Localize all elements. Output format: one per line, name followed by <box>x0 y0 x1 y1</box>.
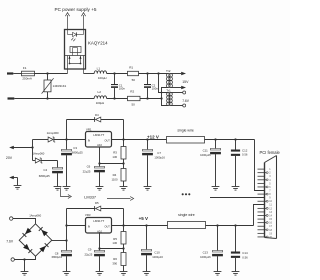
ferrite single wire bottom box <box>168 222 206 229</box>
text: R2 value 50 <box>132 103 136 107</box>
connector pin 9 <box>258 197 265 199</box>
arrow: 20V return <box>9 176 17 186</box>
svg-text:+5 V: +5 V <box>139 216 148 221</box>
text: R3 value 130 <box>112 155 117 159</box>
arrow: LM337 repeat right <box>107 197 134 201</box>
svg-text:1000µ16: 1000µ16 <box>200 153 211 157</box>
resistor R2 <box>128 96 141 100</box>
text: C12 value 0.56 <box>242 153 248 157</box>
text: single wire top <box>177 128 194 132</box>
svg-text:6800µ25: 6800µ25 <box>72 151 83 155</box>
ground: C8 <box>63 272 71 276</box>
svg-text:5: 5 <box>269 182 271 185</box>
text: L2 <box>98 90 102 94</box>
wire: bridge diamond edges <box>19 224 52 256</box>
text: C6 value 22u25 <box>83 169 91 173</box>
wire: Tr2 secondary bottom output <box>170 86 186 89</box>
node: C2 top junction <box>146 72 148 74</box>
text: +12 V rail label <box>147 135 159 140</box>
fuse F1 <box>22 71 35 76</box>
connector pin 15 <box>258 218 265 220</box>
svg-text:22µ25: 22µ25 <box>83 169 91 173</box>
wire: input ground stub <box>24 260 26 272</box>
capacitor C8 <box>61 251 72 272</box>
svg-text:PCI female: PCI female <box>260 150 281 155</box>
text: F1 <box>23 66 27 70</box>
svg-text:C8: C8 <box>55 252 59 256</box>
terminal: 7.6V input bottom circle <box>11 258 14 261</box>
terminal: line input top <box>7 72 13 74</box>
relay internal MOSFET switches <box>68 56 81 65</box>
ground: C13 <box>214 272 222 276</box>
relay output pin right <box>83 56 85 74</box>
text: VR3 ADJ pin <box>97 230 102 233</box>
ground: bridge input <box>21 272 29 276</box>
wire: top tap down to Tr1 primary <box>159 74 169 93</box>
wire: bottom rail L2 to R2 <box>107 98 128 100</box>
capacitor C12 <box>231 140 240 187</box>
diode D5 <box>95 206 101 211</box>
svg-text:19: 19 <box>269 232 272 235</box>
connector pin 10 <box>258 200 267 202</box>
wire: rail after bottom single wire box <box>206 225 254 227</box>
text: R1 <box>129 66 133 70</box>
capacitor C1 <box>111 74 118 99</box>
wire: +5V feed to connector <box>254 205 265 226</box>
node: R5-R6 junction <box>122 247 124 249</box>
text: C10 <box>154 251 160 255</box>
svg-text:+12 V: +12 V <box>147 135 159 140</box>
svg-text:1000µ16: 1000µ16 <box>154 156 165 160</box>
wire: to diode D3 <box>33 160 36 162</box>
arrow: 20V input from transformer <box>9 146 32 149</box>
node: Tr1 primary top tap <box>161 92 163 94</box>
diode B3 (bottom-left) <box>23 244 32 253</box>
svg-text:LM317T: LM317T <box>93 219 104 223</box>
svg-text:C9: C9 <box>88 248 92 252</box>
text: bridge label 1Amp060 <box>29 213 41 217</box>
regulator VR1 LM317 box <box>86 132 112 148</box>
svg-text:OUT: OUT <box>105 139 111 142</box>
text: VR1 OUT pin <box>105 139 111 142</box>
text: VR3 LM317T <box>93 219 104 223</box>
wire: Tr2 secondary top output <box>170 72 186 75</box>
relay internal gate arch <box>73 48 78 56</box>
wire: bottom rail R2 to transformer <box>140 98 162 100</box>
wire: Tr1 secondary bottom output <box>170 104 185 107</box>
ground: R6 <box>120 272 128 276</box>
node: C10 junction <box>145 224 147 226</box>
node: bottom rail varistor junction <box>46 97 48 99</box>
text: R6 <box>113 257 117 261</box>
wire: top rail L1 to R1 <box>107 73 128 75</box>
node: C13 junction <box>216 224 218 226</box>
node: C1 top junction <box>113 72 115 74</box>
text: D2 label 1Amp060 <box>47 131 59 135</box>
svg-text:LM337: LM337 <box>84 195 96 200</box>
resistor R1 <box>128 71 139 75</box>
svg-text:16: 16 <box>269 222 272 225</box>
capacitor C3 <box>61 140 72 187</box>
svg-text:11: 11 <box>269 204 272 207</box>
text: KAQY214 label <box>88 41 108 46</box>
svg-text:VR1: VR1 <box>86 127 92 131</box>
text: C3 <box>73 146 77 150</box>
svg-text:1100: 1100 <box>112 177 118 181</box>
svg-text:PC power supply +5: PC power supply +5 <box>54 7 96 12</box>
node: VR1 input junction <box>65 138 67 140</box>
connector pin 17 <box>258 225 265 227</box>
text: VR3 <box>85 213 91 217</box>
svg-text:0.56: 0.56 <box>242 153 248 157</box>
svg-text:50: 50 <box>132 103 136 107</box>
svg-text:OUT: OUT <box>105 225 111 228</box>
resistor R5 <box>121 226 126 249</box>
ground: C4 <box>54 187 62 191</box>
svg-text:6800µ16: 6800µ16 <box>52 255 63 259</box>
svg-text:D5: D5 <box>95 201 99 205</box>
text: PCI female <box>260 150 281 155</box>
svg-text:KAQY214: KAQY214 <box>88 41 108 46</box>
diode D2 1Amp060 <box>48 137 55 142</box>
text: C9 <box>88 248 92 252</box>
svg-text:C14: C14 <box>242 251 248 255</box>
svg-text:14D331K1: 14D331K1 <box>53 84 67 88</box>
resistor R6 <box>121 249 126 272</box>
svg-text:17: 17 <box>269 225 272 228</box>
wire: D3 to C4 <box>41 160 57 162</box>
relay U1 KAQY214 outline <box>65 30 86 70</box>
svg-text:single wire: single wire <box>177 128 194 132</box>
resistor R4 <box>121 164 126 187</box>
node: ADJ junction VR3 <box>98 247 100 249</box>
svg-text:22µ25: 22µ25 <box>85 253 93 257</box>
svg-text:C11: C11 <box>203 148 208 152</box>
relay internal bus line <box>65 55 85 57</box>
svg-text:100µH: 100µH <box>98 76 107 80</box>
text: C7 <box>157 151 161 155</box>
svg-text:13: 13 <box>269 211 272 214</box>
text: 7.6V input label <box>6 239 14 243</box>
wire: VR1 output rail <box>112 139 167 141</box>
svg-text:1Amp060: 1Amp060 <box>47 131 59 135</box>
svg-text:C6: C6 <box>87 164 91 168</box>
connector pin numbers <box>269 168 272 239</box>
text: 250mA <box>22 77 32 81</box>
text: L2 value 100uH <box>96 101 105 105</box>
text: C13 value 1000u16 <box>200 255 211 259</box>
svg-text:Tr2: Tr2 <box>166 69 171 73</box>
text: Tr2 <box>166 69 171 73</box>
node: R5 top junction <box>122 224 124 226</box>
text: C3 value 6800u25 <box>72 151 83 155</box>
wire: VR1 ADJ <box>100 147 124 164</box>
transformer Tr1 primary winding <box>167 92 170 105</box>
text: C11 <box>203 148 208 152</box>
svg-text:12: 12 <box>269 207 272 210</box>
transformer Tr1 secondary winding <box>169 92 172 105</box>
connector pin 19 <box>258 232 265 234</box>
wire: D5 bypass right <box>123 209 125 226</box>
diode B4 (bottom-right) <box>39 243 48 252</box>
wire: bridge output to VR3 input node <box>52 209 67 251</box>
ground: C7 <box>144 187 152 191</box>
regulator VR3 LM317 box <box>86 218 112 234</box>
ground: R4 <box>120 187 128 191</box>
node: transformer primary tap top <box>157 72 159 74</box>
wire: 7.6V top input to bridge <box>13 219 36 224</box>
svg-text:VR3: VR3 <box>85 213 91 217</box>
capacitor C14 <box>231 226 240 272</box>
text: VR1 <box>86 127 92 131</box>
wire: D4 bypass right <box>123 120 125 140</box>
capacitor C2 <box>144 74 151 99</box>
svg-text:C7: C7 <box>157 151 161 155</box>
text: C8 value 6800u16 <box>52 255 63 259</box>
varistor RV1 <box>42 74 54 99</box>
connector pin socket circles <box>266 172 268 238</box>
svg-text:7: 7 <box>269 190 271 193</box>
svg-text:14: 14 <box>269 215 272 218</box>
node: C2 bottom junction <box>146 97 148 99</box>
transformer Tr2 secondary winding <box>169 73 173 87</box>
svg-text:L2: L2 <box>98 90 102 94</box>
wire: +12V feed to connector <box>255 140 265 191</box>
terminal: line input bottom <box>8 97 15 99</box>
resistor R3 <box>121 140 126 164</box>
text: C2 value 100n <box>152 87 159 91</box>
wire: rail after single wire box <box>205 139 255 141</box>
diode D4 <box>95 117 101 122</box>
connector pin 20 <box>258 236 267 238</box>
text: C2 <box>152 84 156 88</box>
svg-text:130: 130 <box>112 241 117 245</box>
wire: top rail terminal to fuse <box>13 73 21 75</box>
node: ellipsis dots <box>182 193 191 195</box>
svg-text:100µH: 100µH <box>96 101 105 105</box>
svg-text:7.6V: 7.6V <box>6 239 14 243</box>
text: VR1 ADJ pin <box>97 144 102 147</box>
svg-text:F1: F1 <box>23 66 27 70</box>
svg-text:C10: C10 <box>154 251 160 255</box>
wire: VR3 ADJ <box>100 233 124 249</box>
ground: C11 <box>212 187 220 191</box>
text: VR1 IN pin <box>88 139 91 142</box>
text: 20V <box>6 156 13 160</box>
node: C7 junction <box>146 138 148 140</box>
svg-text:R2: R2 <box>130 90 134 94</box>
connector pin 13 <box>258 211 265 213</box>
svg-text:ADJ: ADJ <box>97 230 102 233</box>
text: L1 value 100uH <box>98 76 107 80</box>
svg-text:C12: C12 <box>242 148 248 152</box>
wire: Tr1 secondary top output <box>170 91 185 94</box>
text: R3 <box>113 151 117 155</box>
text: L1 <box>97 67 101 71</box>
node: R3-R4 junction <box>122 162 124 164</box>
connector pin 16 <box>258 222 267 224</box>
ground: C10 <box>143 272 151 276</box>
text: C6 <box>87 164 91 168</box>
svg-text:390: 390 <box>112 261 117 265</box>
text: C9 value 22u25 <box>85 253 93 257</box>
svg-text:15V: 15V <box>182 80 189 84</box>
wire: D4 bypass top <box>67 119 124 121</box>
text: R2 <box>130 90 134 94</box>
svg-text:250mA: 250mA <box>22 77 32 81</box>
transformer Tr2 primary winding <box>166 73 170 87</box>
svg-text:C3: C3 <box>73 146 77 150</box>
svg-text:130: 130 <box>112 155 117 159</box>
text: C14 <box>242 251 248 255</box>
text: VR3 IN pin <box>88 225 91 228</box>
text: VR3 OUT pin <box>105 225 111 228</box>
text: C1 <box>119 84 123 88</box>
svg-text:9: 9 <box>269 197 271 200</box>
capacitor C11 <box>210 140 221 187</box>
text: R4 <box>113 173 117 177</box>
text: C14 value 0.56 <box>242 255 248 259</box>
node: top rail varistor junction <box>46 72 48 74</box>
text: 14D331K1 <box>53 84 67 88</box>
svg-text:7.6V: 7.6V <box>182 99 190 103</box>
wire: top rail R1 to transformers <box>139 73 169 75</box>
text: R5 <box>113 237 117 241</box>
connector pin 11 <box>258 204 265 206</box>
svg-text:1000µ16: 1000µ16 <box>152 255 163 259</box>
ground: C14 <box>232 272 240 276</box>
wire: bottom rail terminal to L2 <box>14 98 94 100</box>
svg-text:IN: IN <box>88 139 91 142</box>
text: 7.6V output label <box>182 99 190 103</box>
connector pin 8 <box>258 193 267 195</box>
svg-text:15: 15 <box>269 218 272 221</box>
node: C12 junction <box>234 138 236 140</box>
inductor L2 <box>94 96 106 99</box>
text: 15V output label <box>182 80 189 84</box>
node: C1 bottom junction <box>113 97 115 99</box>
svg-text:1000µ16: 1000µ16 <box>200 255 211 259</box>
text: D4 <box>95 113 99 117</box>
svg-text:3: 3 <box>269 175 271 178</box>
svg-text:LM317T: LM317T <box>93 133 104 137</box>
connector pin 3 <box>258 175 265 177</box>
svg-text:Tr1: Tr1 <box>166 88 171 92</box>
ground: C9 <box>96 272 104 276</box>
connector pin 4 <box>258 179 267 181</box>
text: C13 <box>203 251 209 255</box>
diode D3 1Amp060 <box>35 158 42 163</box>
svg-text:100n: 100n <box>119 87 126 91</box>
terminal: 7.6V input top circle <box>10 217 13 220</box>
wire: top rail fuse to relay <box>35 73 68 75</box>
svg-text:C4: C4 <box>43 168 47 172</box>
svg-text:1Amp060: 1Amp060 <box>32 151 44 155</box>
text: C4 value 6800u25 <box>39 174 50 178</box>
text: D3 label 1Amp060 <box>32 151 44 155</box>
text: Tr1 <box>166 88 171 92</box>
text: R4 value 1100 <box>112 177 118 181</box>
wire: 7.6V bottom input to bridge <box>14 256 35 259</box>
text: C12 <box>242 148 248 152</box>
text: +5 V rail label <box>139 216 148 221</box>
capacitor C7 <box>142 140 153 187</box>
text: D5 <box>95 201 99 205</box>
capacitor C13 <box>212 226 223 272</box>
connector pin 14 <box>258 215 267 217</box>
capacitor C10 <box>141 226 152 272</box>
wire: D5 bypass top <box>67 208 124 210</box>
diode B1 (top-left) <box>23 228 32 237</box>
node: VR3 input rail junction <box>65 224 67 226</box>
svg-text:0.56: 0.56 <box>242 255 248 259</box>
diode B2 (top-right) <box>39 227 48 236</box>
wire: -12V feed to connector <box>210 197 265 199</box>
node: C14 junction <box>234 224 236 226</box>
svg-text:single wire: single wire <box>178 213 195 217</box>
connector pin 1 <box>258 168 265 170</box>
svg-text:IN: IN <box>88 225 91 228</box>
text: PC power supply +5 label <box>54 7 96 12</box>
node: C11 junction <box>214 138 216 140</box>
svg-text:100n: 100n <box>152 87 159 91</box>
wire: VR3 output rail <box>112 225 168 227</box>
relay internal photodiode block <box>70 47 81 53</box>
text: C11 value 1000u16 <box>200 153 211 157</box>
svg-text:R1: R1 <box>129 66 133 70</box>
capacitor C4 <box>52 161 63 187</box>
connector pin 2 <box>258 172 267 174</box>
wire: input node vertical <box>32 140 34 161</box>
wire: relay left supply pin with arrow <box>65 13 69 30</box>
node: R3 top junction <box>122 138 124 140</box>
ground: 20V return <box>14 186 22 190</box>
text: C7 value 1000u16 <box>154 156 165 160</box>
capacitor C6 <box>94 164 105 187</box>
connector pin 7 <box>258 190 265 192</box>
wire: relay right supply pin with arrow <box>81 13 85 30</box>
svg-text:D4: D4 <box>95 113 99 117</box>
relay output pin left <box>67 56 69 74</box>
svg-text:ADJ: ADJ <box>97 144 102 147</box>
wire: top rail relay to L1 <box>84 73 95 75</box>
text: C8 <box>55 252 59 256</box>
connector pin 18 <box>258 229 267 231</box>
ground: C12 <box>232 187 240 191</box>
wire: VR3 input rail <box>67 225 86 227</box>
text: C1 value 100n <box>119 87 126 91</box>
svg-text:L1: L1 <box>97 67 101 71</box>
svg-text:C13: C13 <box>203 251 209 255</box>
text: VR1 LM317T <box>93 133 104 137</box>
text: single wire bottom <box>178 213 195 217</box>
arrow: continuation to LM337 section <box>61 188 72 199</box>
capacitor C9 <box>94 249 105 272</box>
svg-text:6800µ25: 6800µ25 <box>39 174 50 178</box>
connector J1 PCI female body <box>265 156 277 239</box>
text: C4 <box>43 168 47 172</box>
svg-text:1Amp060: 1Amp060 <box>29 213 41 217</box>
node: bridge output junction <box>65 239 67 241</box>
svg-text:50: 50 <box>132 78 136 82</box>
text: LM337 <box>84 195 96 200</box>
svg-text:6: 6 <box>269 186 271 189</box>
ground: C6 <box>96 187 104 191</box>
svg-text:1: 1 <box>269 168 271 171</box>
node: bottom input ground junction <box>23 258 25 260</box>
node: 20V input junction <box>31 146 33 148</box>
text: C10 value 1000u16 <box>152 255 163 259</box>
